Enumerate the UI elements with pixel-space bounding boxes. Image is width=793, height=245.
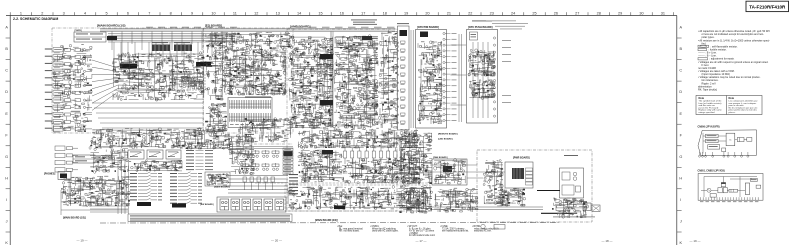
svg-text:13: 13 (276, 11, 280, 15)
phones jack dark insert (60, 174, 67, 179)
svg-text:CN806 (JPY/US/FR): CN806 (JPY/US/FR) (698, 126, 720, 129)
speaker terminal labels (289, 174, 298, 194)
ribbon strip label (397, 22, 409, 25)
svg-text:— 17 —: — 17 — (415, 239, 426, 243)
svg-text:12: 12 (254, 11, 258, 15)
tim-push interconnect wires (451, 34, 467, 122)
phones ground wires (61, 190, 128, 215)
push board right labels (502, 40, 511, 103)
speaker switch row box (217, 197, 286, 212)
svg-text:CN801, CN802 (JPY/GB): CN801, CN802 (JPY/GB) (698, 170, 725, 173)
cn801 box b (723, 188, 727, 193)
footnote small icon a (481, 224, 485, 228)
svg-text:K: K (680, 241, 683, 245)
power switch (583, 203, 591, 211)
upper right note lines (486, 21, 528, 30)
footnote column 2 (370, 226, 399, 232)
CN102 dark connector body (172, 204, 186, 208)
cn806 box5 (747, 138, 752, 142)
ribbon strip components (397, 41, 405, 125)
ac mains thick wire lower (541, 212, 577, 214)
muting switch dark block (196, 62, 211, 66)
legend fusible resistor icon (698, 48, 707, 50)
psu left parts (434, 188, 478, 212)
svg-text:25: 25 (532, 11, 536, 15)
ruler tick marks (10, 12, 673, 15)
svg-text:D: D (5, 90, 8, 94)
fan board parts (434, 158, 466, 184)
vol detect boxes (97, 198, 104, 205)
svg-text:[PWR BOARD]: [PWR BOARD] (513, 157, 530, 160)
amp IC relay dark block A (320, 54, 333, 59)
note box outer (696, 96, 762, 115)
phono eq amp stage (222, 47, 287, 95)
fan board box (432, 159, 467, 185)
svg-text:G: G (5, 155, 8, 159)
svg-text:ratings specified.: ratings specified. (699, 111, 716, 114)
svg-text:2: 2 (41, 11, 43, 15)
row letter ticks right (677, 38, 682, 232)
eq bottom parts (238, 118, 292, 143)
relay driver parts (207, 174, 229, 186)
cn806 wires (703, 133, 747, 154)
footnote column 4 (440, 226, 469, 232)
footnote column 1 (337, 225, 363, 232)
svg-text:G: G (679, 155, 682, 159)
protection relay dark block (334, 206, 345, 210)
svg-text:3: 3 (63, 11, 65, 15)
svg-text:pièces.: pièces. (729, 112, 736, 114)
svg-text:15: 15 (318, 11, 322, 15)
svg-text:21: 21 (447, 11, 451, 15)
speaker selector switch row 1 (242, 150, 279, 157)
cpu tim interior parts (418, 41, 443, 124)
tape A connector box (74, 32, 106, 42)
cn801 lower box (710, 194, 716, 198)
cn801 transformer circle (707, 188, 711, 192)
svg-text:31: 31 (661, 11, 665, 15)
svg-text:24: 24 (511, 11, 515, 15)
ac mains thick wire upper (537, 190, 560, 192)
rec out buffer box (128, 73, 143, 79)
bus vertical drops (112, 31, 232, 56)
top ruler line (6, 15, 677, 17)
svg-text:Note: Note (699, 97, 705, 100)
svg-text:J: J (680, 220, 682, 224)
cn801 bottom pins (701, 197, 759, 200)
svg-text:[MAIN BOARD] (1/2): [MAIN BOARD] (1/2) (97, 24, 126, 28)
svg-text:27: 27 (575, 11, 579, 15)
row letters A-K left margin (5, 26, 8, 245)
balance pot box (147, 150, 163, 159)
relay parts row (243, 177, 274, 190)
selector feed wiring (228, 134, 254, 175)
phono eq inner dashed box (225, 50, 285, 94)
svg-text:I: I (6, 198, 7, 202)
svg-text:[MAIN BOARD (2/2)]: [MAIN BOARD (2/2)] (315, 219, 338, 222)
cpu tim pin header circles (443, 32, 457, 121)
push board pin circles (493, 37, 495, 117)
footnote column 5 (472, 226, 499, 232)
bus labels (146, 26, 395, 29)
power transistor row (298, 127, 418, 149)
svg-text:A: A (680, 26, 683, 30)
jack column value labels (51, 44, 92, 132)
input switching circuit parts (112, 52, 204, 101)
eq top parts (206, 32, 290, 49)
psu mid parts (494, 188, 526, 206)
relay label (121, 61, 132, 64)
note box divider (725, 96, 727, 115)
secondary bus band (108, 34, 235, 43)
note box right body (729, 100, 759, 114)
svg-text:20: 20 (425, 11, 429, 15)
svg-text:17: 17 (361, 11, 365, 15)
svg-text:E: E (680, 112, 683, 116)
legend selfflammable resistor icon (698, 45, 709, 47)
svg-text:7: 7 (148, 11, 150, 15)
tape B monitor box (73, 155, 95, 163)
cn801 mid right label box (756, 185, 761, 188)
ac plug box (592, 205, 600, 212)
push board upper parts (468, 49, 495, 76)
tone defeat wiring (180, 127, 231, 149)
svg-text:J: J (6, 220, 8, 224)
headphone amp parts (60, 176, 130, 206)
wire label stack dark header (284, 151, 293, 156)
note box left body (699, 100, 723, 114)
svg-text:switched AC line.: switched AC line. (474, 230, 492, 233)
cn801 outline (698, 174, 763, 201)
din block bottom labels (230, 123, 270, 126)
svg-text:— 18 —: — 18 — (601, 239, 612, 243)
speaker protection parts (287, 186, 427, 210)
wire label stack (283, 148, 293, 174)
aux wiring between pots and jacks (90, 148, 128, 173)
svg-text:28: 28 (597, 11, 601, 15)
svg-text:— 19 —: — 19 — (76, 238, 87, 242)
svg-text:29: 29 (618, 11, 622, 15)
eq left verticals (204, 40, 223, 100)
svg-text:RK: not fitted board.: RK: not fitted board. (339, 230, 360, 233)
row letter ticks left (6, 38, 11, 232)
bias diode dark block (322, 150, 333, 155)
cn806 box3 (708, 145, 720, 149)
relay driver label rows (186, 150, 213, 170)
cpu crystal dark box (420, 32, 428, 38)
cn801 tall box (745, 183, 749, 195)
svg-text:8: 8 (170, 11, 172, 15)
svg-text:• All resistors are in Ω, 1/4: • All resistors are in Ω, 1/4 W. 1k Ω=10… (698, 39, 770, 42)
volume pot box (128, 150, 144, 159)
svg-text:[REC SEL BOARD]: [REC SEL BOARD] (172, 71, 192, 74)
speaker switch cells (220, 199, 284, 210)
relay dark block (512, 168, 524, 179)
amp mid dashed boundary (255, 182, 430, 184)
svg-text:I: I (680, 198, 681, 202)
svg-text:[AMP BOARD]: [AMP BOARD] (290, 25, 310, 29)
svg-text:• Voltages are dc with respect: • Voltages are dc with respect to ground… (698, 61, 769, 64)
strip to cpu wires (411, 30, 413, 128)
CN101 dark connector body (137, 202, 151, 206)
push board internal verticals (473, 42, 488, 118)
pwr board dash-dot outline (477, 150, 592, 222)
psu note line (553, 216, 595, 219)
IC301 label (152, 41, 168, 44)
input jack rows (45, 48, 74, 133)
output stage emitter resistors (343, 147, 411, 164)
svg-text:[CPU PUSH BOARD]: [CPU PUSH BOARD] (468, 26, 493, 29)
svg-text:2-2. SCHEMATIC DIAGRAM: 2-2. SCHEMATIC DIAGRAM (13, 17, 58, 21)
power supply top label (564, 154, 578, 157)
svg-text:22: 22 (468, 11, 472, 15)
amp IC relay dark block B (320, 100, 333, 105)
amp to psu wires (430, 165, 505, 178)
svg-text:[SW BOARD]: [SW BOARD] (200, 203, 214, 206)
svg-text:[MAIN BOARD]: [MAIN BOARD] (214, 186, 230, 189)
bottom dash-dot separation line (100, 222, 560, 224)
eq board dash-dot outline (204, 28, 294, 133)
eq bottom dash-dot border (204, 143, 294, 145)
svg-text:23: 23 (490, 11, 494, 15)
svg-text:fied.: fied. (702, 42, 707, 45)
svg-text:10: 10 (211, 11, 215, 15)
jack to eq wire bundle (92, 103, 203, 128)
phones jack box (58, 172, 71, 180)
cn801 hatched box (729, 189, 738, 192)
amp relay dark blob (362, 36, 372, 40)
legend adjustment icon (698, 58, 708, 60)
model title box TA-F210R/F410R (746, 1, 789, 11)
tone control bus area (89, 128, 180, 149)
psu secondary parts (552, 198, 587, 218)
amp lower mid stage (342, 158, 421, 184)
cn806 pin circles (699, 152, 749, 157)
svg-text:18: 18 (383, 11, 387, 15)
input coupling capacitor column (75, 48, 92, 130)
svg-text:TA-F210R/F410R: TA-F210R/F410R (749, 4, 786, 9)
eq stage label (245, 97, 271, 98)
lower jack rows (55, 146, 78, 172)
cn806 box4 (737, 138, 744, 142)
svg-text:B: B (680, 47, 683, 51)
svg-text:19: 19 (404, 11, 408, 15)
hatched IC301 block (152, 45, 170, 52)
bottom bus lines (130, 215, 290, 221)
relay unit box (505, 162, 533, 188)
relay pin column (526, 168, 533, 185)
main board dash-dot outline (52, 28, 203, 133)
svg-text:30: 30 (639, 11, 643, 15)
amp driver stage (333, 35, 378, 128)
cpu tim board outline (416, 30, 447, 129)
cn806 outline (698, 130, 757, 156)
hatched IC302 block (174, 45, 192, 52)
function connector CN102 pin list (170, 172, 202, 204)
footnote column 3 (407, 226, 436, 237)
din pin rows (230, 100, 272, 122)
svg-text:D: D (679, 90, 682, 94)
push board header box (470, 32, 478, 40)
speaker selector switch row 2 (242, 163, 279, 170)
svg-text:C: C (5, 69, 8, 73)
svg-text:14: 14 (297, 11, 301, 15)
IC302 label (174, 41, 190, 44)
cn801 cap part (721, 183, 725, 187)
amp right column (378, 30, 398, 128)
svg-text:H: H (679, 176, 682, 180)
notes bullet list (698, 30, 770, 92)
amp input differential stage (288, 36, 334, 128)
svg-text:11: 11 (233, 11, 237, 15)
right amp extension (398, 131, 432, 184)
cpu push board outline (467, 30, 498, 124)
svg-text:— 19 —: — 19 — (689, 239, 700, 243)
svg-text:[REMOTE BOARD]: [REMOTE BOARD] (438, 133, 458, 136)
cpu push board note line (472, 20, 492, 23)
din connector block (228, 98, 272, 128)
transformer primary parts (562, 172, 581, 195)
bus drop wires to switches (114, 42, 198, 70)
svg-text:6: 6 (127, 11, 129, 15)
speaker bus lines (228, 176, 288, 194)
svg-text:1: 1 (20, 11, 22, 15)
left border line (9, 16, 11, 245)
ruler zone numbers 1-31 (20, 11, 665, 15)
svg-text:used with AC outlet types.: used with AC outlet types. (372, 230, 399, 233)
rec selector parts (174, 76, 203, 89)
ribbon strip board outline (398, 26, 410, 130)
svg-text:[CPU/TIM BOARD]: [CPU/TIM BOARD] (417, 26, 439, 29)
function connector CN101 pin list (130, 172, 162, 201)
treble pot box (166, 150, 181, 159)
svg-text:9: 9 (191, 11, 193, 15)
power relay RY901 dark block (120, 64, 137, 69)
record out selector dark block (107, 36, 117, 40)
svg-text:16: 16 (340, 11, 344, 15)
svg-text:[FAN BOARD]: [FAN BOARD] (433, 156, 448, 159)
svg-text:H: H (5, 176, 8, 180)
cn801 wires (701, 177, 757, 198)
svg-text:[TAPE]: [TAPE] (75, 29, 82, 32)
amp vertical rail (330, 32, 332, 129)
top signal bus lines (100, 29, 395, 32)
svg-text:C: C (679, 69, 682, 73)
pot to connector vertical wires (90, 160, 129, 214)
long feed wires to psu (430, 207, 543, 210)
svg-text:see replacement parts list.: see replacement parts list. (442, 230, 469, 233)
svg-text:[LED BOARD]: [LED BOARD] (438, 138, 453, 141)
amp board dash-dot outline (287, 29, 397, 211)
cn801 box a (718, 188, 722, 193)
speaker output row box (285, 185, 430, 211)
svg-text:26: 26 (554, 11, 558, 15)
bottom bus box (128, 214, 292, 222)
fan motor dark block (443, 166, 452, 172)
svg-text:4: 4 (84, 11, 86, 15)
svg-text:— 20 —: — 20 — (271, 239, 282, 243)
footnote small icon b (494, 225, 505, 230)
eq lower stage (205, 103, 227, 132)
svg-text:[MAIN BOARD (1/2)]: [MAIN BOARD (1/2)] (63, 217, 86, 220)
pot wiring (128, 160, 182, 172)
relay driver box (205, 172, 230, 186)
row letters A-K right margin (679, 26, 682, 245)
rec selector dashed box (172, 74, 205, 90)
psu feed component (556, 206, 565, 211)
svg-text:Note: Note (729, 97, 735, 100)
source select wire fan (92, 60, 150, 110)
push board lower parts (469, 80, 495, 100)
svg-text:RK: Tape deck(s): RK: Tape deck(s) (698, 89, 717, 92)
ribbon strip dark header (400, 30, 408, 36)
psu inner left parts (483, 160, 504, 204)
cn801 top right label box (751, 178, 758, 181)
amp top notes (351, 20, 377, 25)
cn806 box2 (706, 139, 719, 143)
cn806 sub part (722, 148, 726, 152)
transformer box (560, 168, 584, 198)
output network (298, 150, 342, 183)
selector bus pair (230, 147, 293, 149)
svg-text:[PHONES]: [PHONES] (44, 174, 55, 176)
right border line (676, 16, 678, 245)
cn806 box1 (706, 134, 719, 138)
svg-text:5: 5 (105, 11, 107, 15)
svg-text:for GB model 2-wire cord.: for GB model 2-wire cord. (409, 234, 436, 237)
right amp extension lower (398, 185, 432, 213)
cn801 pin number labels (700, 200, 758, 203)
cn806 ic box (726, 133, 735, 146)
